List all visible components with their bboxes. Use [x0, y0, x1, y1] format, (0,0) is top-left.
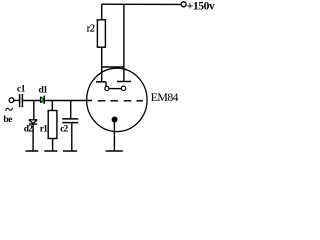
- wire d1 to tube grid: [45, 100, 93, 102]
- wire connector between verticals: [102, 66, 124, 68]
- terminal +150v: [181, 2, 186, 7]
- wire input to c1: [14, 99, 19, 101]
- wire r2 top stub: [101, 4, 103, 20]
- resistor r1: [48, 111, 57, 139]
- wire r2 bottom to left deflection electrode: [101, 47, 103, 82]
- wire drop to pin circle: [105, 82, 107, 87]
- electrode left bar: [96, 81, 106, 83]
- diode d2: [29, 119, 37, 121]
- svg-text:d2: d2: [24, 125, 33, 135]
- svg-text:d1: d1: [39, 85, 48, 95]
- wire pin link: [109, 88, 121, 90]
- wire r1 to ground: [52, 139, 54, 151]
- svg-text:r2: r2: [87, 24, 95, 35]
- tube envelope EM84: [87, 68, 147, 131]
- ground d2: [26, 150, 39, 152]
- cathode dot: [112, 117, 118, 123]
- wire r1 branch: [51, 101, 53, 111]
- capacitor c1: [19, 94, 21, 107]
- svg-text:be: be: [3, 115, 12, 125]
- wire c1 to d1: [23, 100, 40, 102]
- svg-text:EM84: EM84: [151, 90, 179, 104]
- ground tube: [106, 150, 123, 152]
- wire screen vertical from top rail: [123, 4, 125, 81]
- svg-text:c1: c1: [17, 85, 26, 95]
- pin circle right: [121, 86, 125, 90]
- ground c2: [63, 150, 77, 152]
- wire top rail: [102, 3, 181, 5]
- svg-text:c2: c2: [60, 124, 68, 134]
- electrode right bar: [117, 81, 131, 83]
- wire c2 branch: [70, 101, 72, 119]
- svg-text:r1: r1: [40, 125, 48, 135]
- wire cathode down: [113, 120, 115, 151]
- resistor r2: [97, 20, 105, 47]
- ground r1: [44, 150, 57, 152]
- svg-text:+150v: +150v: [187, 1, 215, 13]
- diode d1: [40, 97, 42, 103]
- pin circle left: [105, 86, 109, 90]
- capacitor c2: [62, 118, 78, 120]
- wire c2 to ground: [71, 123, 73, 151]
- wire d2 to ground: [32, 124, 34, 151]
- input terminal: [9, 98, 14, 103]
- grid dashed line: [98, 100, 106, 102]
- wire d2 branch: [33, 101, 35, 120]
